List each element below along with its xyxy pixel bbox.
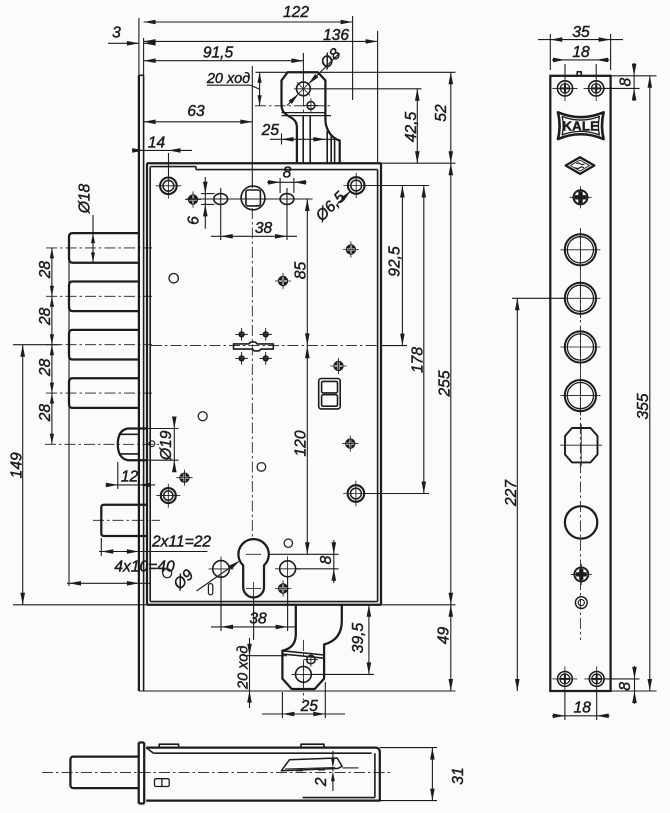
svg-text:20 ход: 20 ход (236, 646, 252, 690)
svg-text:20 ход: 20 ход (206, 71, 250, 87)
svg-text:2x11=22: 2x11=22 (151, 534, 211, 551)
svg-text:3: 3 (112, 25, 121, 42)
svg-text:12: 12 (121, 469, 139, 486)
svg-text:18: 18 (574, 699, 592, 716)
svg-text:25: 25 (261, 122, 280, 139)
svg-text:28: 28 (37, 358, 54, 377)
svg-text:25: 25 (300, 698, 319, 715)
svg-text:18: 18 (572, 44, 590, 61)
svg-text:28: 28 (37, 261, 54, 280)
svg-text:255: 255 (437, 370, 454, 397)
svg-text:4x10=40: 4x10=40 (114, 559, 175, 576)
svg-text:8: 8 (283, 165, 292, 182)
svg-text:8: 8 (318, 555, 335, 564)
svg-text:149: 149 (8, 452, 25, 478)
svg-text:136: 136 (323, 27, 349, 44)
svg-text:38: 38 (255, 220, 273, 237)
svg-text:KALE: KALE (562, 119, 599, 134)
svg-text:91,5: 91,5 (203, 45, 234, 62)
svg-text:63: 63 (187, 103, 205, 120)
svg-text:92,5: 92,5 (387, 246, 404, 277)
svg-text:52: 52 (433, 104, 450, 122)
svg-text:14: 14 (148, 135, 166, 152)
svg-text:8: 8 (617, 77, 634, 86)
svg-text:42,5: 42,5 (403, 112, 420, 143)
svg-text:8: 8 (617, 682, 634, 691)
svg-text:39,5: 39,5 (350, 623, 367, 654)
svg-text:85: 85 (293, 262, 310, 280)
svg-text:Ø19: Ø19 (158, 430, 175, 461)
svg-text:178: 178 (410, 347, 427, 373)
svg-text:31: 31 (450, 767, 467, 784)
svg-text:28: 28 (37, 307, 54, 326)
svg-text:Ø18: Ø18 (77, 183, 94, 214)
svg-text:49: 49 (436, 627, 453, 645)
svg-text:120: 120 (293, 430, 310, 456)
svg-text:122: 122 (283, 4, 309, 21)
svg-text:6: 6 (186, 216, 203, 225)
svg-text:28: 28 (37, 404, 54, 423)
svg-text:38: 38 (249, 611, 267, 628)
svg-text:355: 355 (635, 393, 652, 419)
svg-text:227: 227 (503, 479, 520, 507)
svg-text:2: 2 (313, 777, 330, 787)
svg-text:35: 35 (572, 24, 590, 41)
